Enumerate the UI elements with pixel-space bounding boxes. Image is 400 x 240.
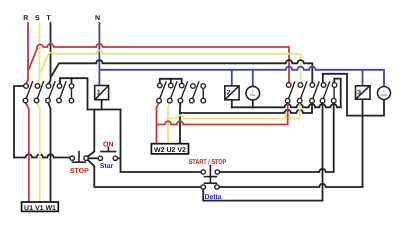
svg-text:U1 V1 W1: U1 V1 W1	[24, 205, 56, 212]
svg-text:S: S	[35, 15, 40, 22]
terminal box U1 V1 W1	[22, 202, 59, 211]
wire star coil bottom stub	[252, 100, 254, 107]
wire yellow rail U2 to delta pole2	[168, 103, 300, 119]
pushbutton START STOP contact circles	[201, 170, 220, 189]
node S phase vertical wire	[38, 23, 40, 84]
wire red phase to motor U1	[26, 103, 29, 202]
wire delta button to delta contactor pole4	[203, 103, 322, 201]
wire yellow phase to motor V1	[37, 103, 40, 202]
wire lower control line to fuse3 bottom	[219, 184, 362, 187]
wire star pole3 down to V2 terminal	[179, 103, 181, 144]
wire aux bar above main contactor to junction H1	[60, 78, 88, 109]
pushbutton STOP	[72, 152, 85, 163]
wire stub pole5 top main contactor	[71, 78, 73, 83]
svg-text:Star: Star	[250, 93, 257, 97]
wire star pole1 down to W2 terminal	[157, 103, 160, 144]
svg-text:N: N	[95, 15, 100, 22]
wire left control rail from R phase to STOP	[14, 86, 70, 158]
svg-text:1: 1	[97, 90, 101, 97]
wire fuse1 bottom stub	[101, 100, 103, 110]
svg-text:ON: ON	[103, 142, 114, 149]
wire red rail W2 to delta pole1	[157, 103, 288, 125]
lamp delta coil	[378, 87, 391, 100]
node N neutral vertical wire	[98, 23, 100, 86]
lamp star coil	[246, 86, 260, 100]
svg-text:STOP: STOP	[70, 168, 89, 175]
wire star pole2 down to U2 terminal	[168, 103, 170, 144]
wire fuse2 bottom stub	[231, 100, 233, 108]
wire black rail V2 to delta pole3	[180, 103, 312, 113]
wire star coil top blue stub	[252, 70, 254, 87]
node T phase vertical wire	[49, 23, 51, 84]
wire STOP right to ON left	[88, 157, 98, 159]
wire STOP right down to lower control line	[88, 160, 202, 187]
fuse F1	[95, 86, 109, 100]
wire blue bus N	[99, 67, 384, 87]
wire H1 down to ON junction and to START	[121, 110, 202, 173]
contactor K1 contact circles	[23, 84, 74, 103]
svg-text:3: 3	[357, 89, 361, 96]
wire upper control line START to delta aux pole5	[220, 103, 334, 172]
wire yellow bus L2	[41, 51, 301, 83]
wire fuse3 bottom vertical	[362, 99, 364, 187]
contactor K1 main blades	[26, 82, 71, 99]
svg-text:Delta: Delta	[204, 193, 221, 201]
svg-text:T: T	[46, 15, 51, 22]
contactor K3 contact circles	[157, 83, 206, 103]
wire red bus L1	[29, 44, 290, 83]
wire star bridge tie bar	[160, 79, 182, 84]
wire fuse2 top blue stub	[231, 70, 233, 86]
fuse F3	[356, 86, 371, 99]
wire fuse3 top blue stub	[362, 70, 364, 86]
wire ON right contact to junction	[118, 157, 121, 159]
pushbutton ON contact circles	[98, 156, 117, 160]
node R phase vertical wire	[26, 23, 28, 84]
svg-text:2: 2	[227, 90, 231, 97]
svg-text:START / STOP: START / STOP	[189, 158, 227, 166]
wire delta aux bar to lamp return	[323, 74, 384, 116]
pushbutton ON star	[101, 147, 116, 151]
contactor K2 contact circles	[285, 83, 336, 103]
wire H1 horizontal fuse output	[88, 109, 121, 111]
svg-text:W2 U2 V2: W2 U2 V2	[154, 147, 186, 154]
contactor K3 star blades	[160, 82, 203, 99]
wire black bus L3	[52, 60, 313, 83]
contactor K2 delta blades	[289, 82, 335, 99]
svg-text:R: R	[23, 15, 28, 22]
wire H1 down to STOP right contact	[88, 110, 95, 157]
terminal box W2 U2 V2	[151, 144, 188, 154]
pushbutton STOP contact circles	[70, 156, 88, 160]
wire star coil return line A	[232, 104, 341, 107]
pushbutton START STOP linked	[204, 166, 216, 184]
fuse F2	[225, 86, 239, 100]
svg-text:Star: Star	[100, 163, 114, 170]
wire black phase to motor W1	[48, 103, 50, 202]
svg-text:Delta: Delta	[380, 93, 388, 97]
